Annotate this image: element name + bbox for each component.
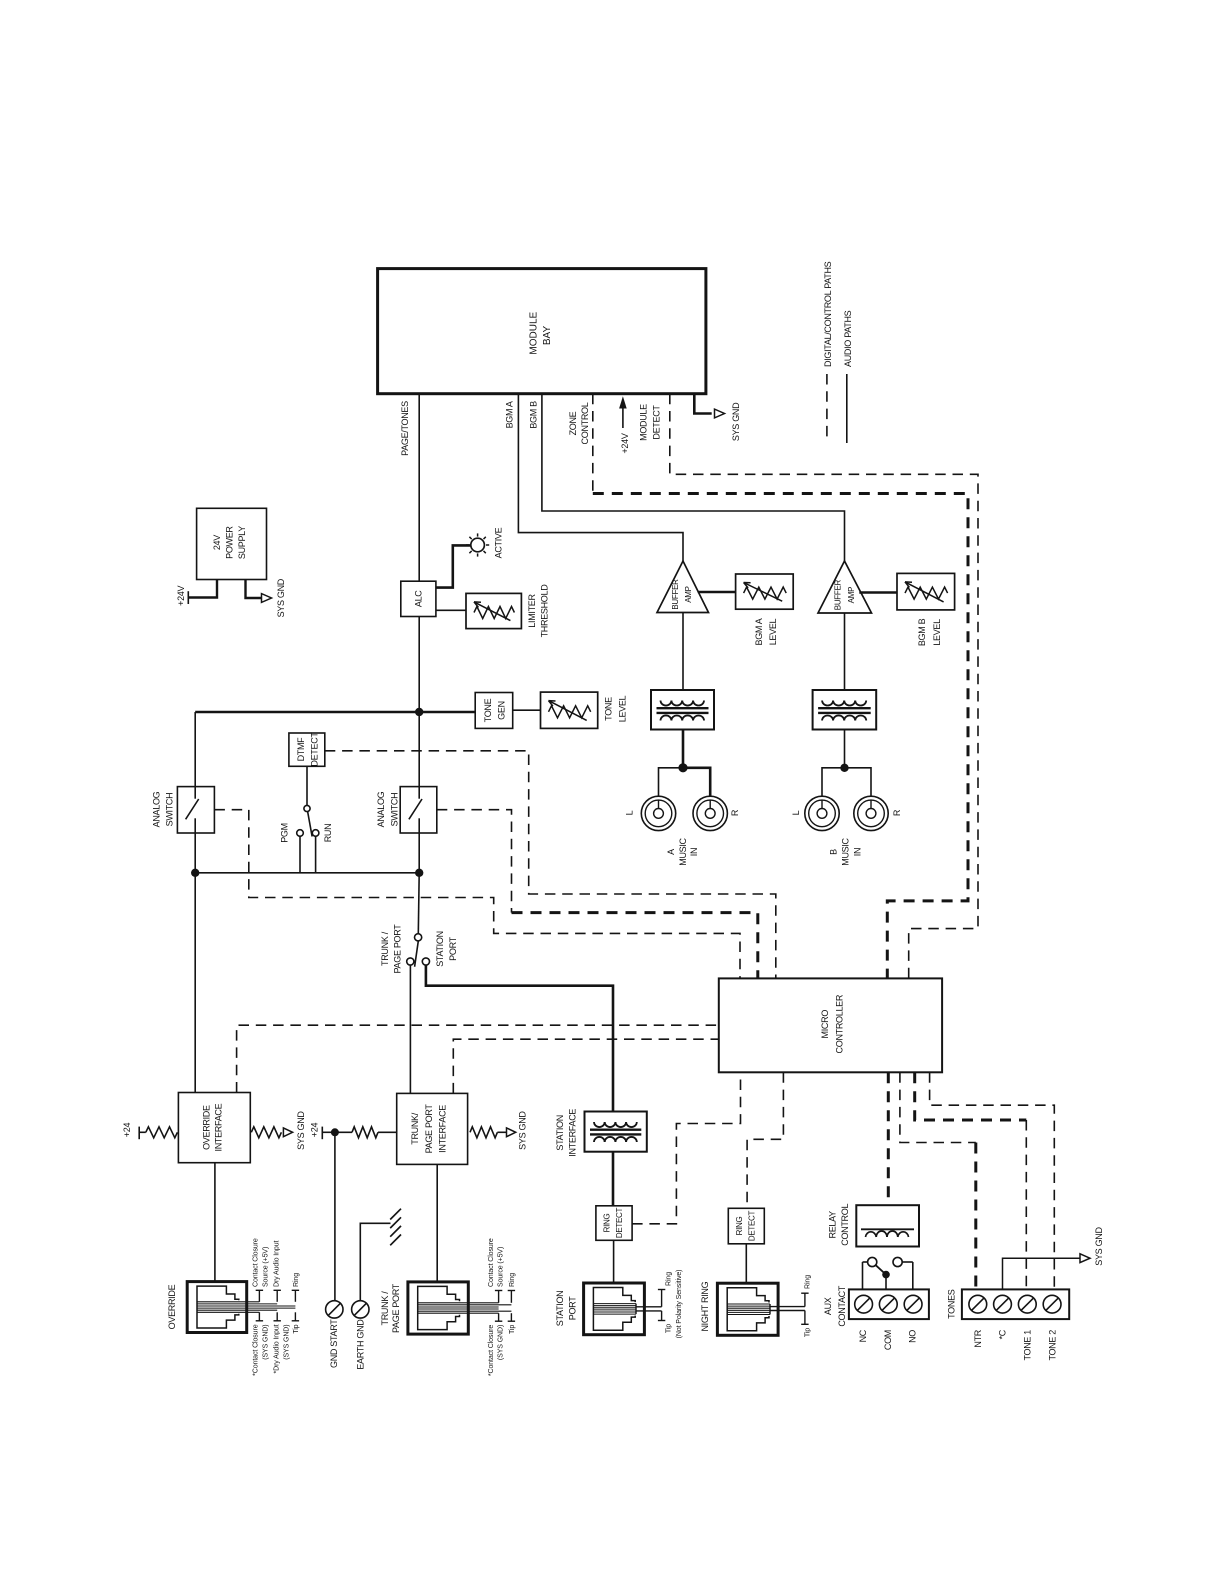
wire BGM B (542, 394, 845, 562)
label SYS GND module bay (731, 402, 741, 441)
svg-text:Tip: Tip (509, 1325, 516, 1334)
label ANALOG SWITCH left (152, 791, 175, 827)
svg-text:INTERFACE: INTERFACE (567, 1109, 577, 1157)
ring detect station box (596, 1206, 632, 1241)
wire analog switch right dashed to micro (437, 810, 758, 979)
svg-text:COM: COM (883, 1330, 893, 1350)
svg-text:TONE: TONE (604, 697, 614, 721)
jack STATION PORT (584, 1283, 666, 1335)
switch trunk/station port select (407, 934, 430, 967)
wire station interface to ring detect (612, 1152, 615, 1206)
svg-text:OVERRIDE: OVERRIDE (167, 1284, 177, 1329)
svg-text:MODULE: MODULE (639, 404, 649, 441)
wire tone bus (195, 711, 475, 714)
label NIGHT RING jack (700, 1281, 710, 1331)
svg-text:24V: 24V (212, 535, 222, 550)
wire NTR dashed from micro (900, 1072, 976, 1289)
node +24 gnd start junction (331, 1128, 339, 1136)
node run bus left (191, 869, 199, 877)
svg-text:Source (+5V): Source (+5V) (262, 1247, 269, 1287)
svg-text:L: L (791, 810, 801, 815)
svg-text:+24V: +24V (620, 433, 630, 453)
svg-text:IN: IN (852, 848, 862, 856)
svg-text:ACTIVE: ACTIVE (494, 527, 504, 558)
svg-text:DETECT: DETECT (309, 732, 319, 767)
labels night ring jack pins (805, 1275, 812, 1337)
svg-text:A: A (666, 849, 676, 855)
label ZONE CONTROL (568, 402, 590, 444)
svg-text:BUFFER: BUFFER (834, 579, 843, 610)
svg-text:POWER: POWER (225, 526, 235, 559)
wire ALC to ACTIVE LED (436, 545, 471, 587)
labels station jack pins (666, 1270, 683, 1339)
legend label DIGITAL/CONTROL PATHS (823, 261, 833, 367)
svg-text:BAY: BAY (542, 326, 553, 346)
BGM A level rheostat (736, 574, 794, 609)
wire left branch down to analog switch (194, 712, 196, 787)
svg-text:Tip: Tip (805, 1328, 812, 1337)
wire night ring detect dashed from micro (747, 1072, 783, 1208)
wire ALC to limiter threshold (436, 609, 466, 611)
wire buffer A to BGM A level (698, 591, 736, 594)
BGM B level rheostat (897, 573, 955, 610)
label A MUSIC IN (666, 837, 699, 865)
aux contact terminal strip (849, 1289, 929, 1319)
svg-text:L: L (625, 810, 635, 815)
svg-text:TRUNK /: TRUNK / (380, 931, 390, 966)
label R music B (892, 809, 902, 816)
label TONE LEVEL (604, 695, 628, 722)
svg-text:PAGE/TONES: PAGE/TONES (400, 401, 410, 456)
svg-text:AMP: AMP (847, 587, 856, 603)
label R music A (730, 809, 740, 816)
wire run bus (195, 872, 419, 874)
labels trunk jack pins top (488, 1238, 516, 1287)
legend digital/control paths dashed sample (826, 374, 828, 443)
labels override jack pins bottom (253, 1324, 301, 1376)
label 24V POWER SUPPLY (212, 526, 247, 560)
svg-text:Tip: Tip (293, 1324, 300, 1333)
wire analog switch left to override interface (194, 833, 196, 1093)
label NC (858, 1329, 868, 1342)
wire tone gen to tone level (513, 709, 541, 711)
wire analog switch left dashed to micro (214, 810, 740, 979)
label BGM A (505, 401, 515, 428)
wire ALC down to tone junction (418, 617, 420, 713)
label TRUNK / PAGE PORT jack (380, 1283, 401, 1333)
wire transformer A to jacks (659, 730, 711, 797)
wire relay control dashed from micro (887, 1072, 890, 1205)
ALC box (401, 581, 436, 616)
svg-text:Ring: Ring (509, 1273, 516, 1287)
svg-text:PORT: PORT (567, 1296, 577, 1320)
switch PGM/RUN (297, 805, 319, 872)
label ANALOG SWITCH right (376, 791, 399, 827)
svg-text:NIGHT RING: NIGHT RING (700, 1281, 710, 1331)
svg-text:RUN: RUN (323, 824, 333, 843)
label TONE 2 (1047, 1330, 1057, 1361)
svg-text:GEN: GEN (497, 701, 507, 720)
label MODULE BAY (529, 311, 553, 354)
svg-text:DIGITAL/CONTROL PATHS: DIGITAL/CONTROL PATHS (823, 261, 833, 367)
svg-text:BGM B: BGM B (917, 618, 927, 646)
label NO (908, 1330, 918, 1343)
label L music A (625, 810, 635, 815)
wire SYS GND lead of power supply (246, 580, 272, 603)
jack B music L (805, 796, 839, 830)
svg-text:INTERFACE: INTERFACE (214, 1103, 224, 1151)
wire DTMF to PGM/RUN switch (306, 766, 308, 805)
svg-text:NTR: NTR (973, 1329, 983, 1347)
svg-text:SUPPLY: SUPPLY (237, 526, 247, 559)
analog switch right (400, 787, 437, 833)
legend audio paths solid sample (846, 374, 848, 443)
svg-text:LEVEL: LEVEL (618, 695, 628, 722)
svg-text:MUSIC: MUSIC (678, 837, 688, 865)
svg-text:Contact Closure: Contact Closure (253, 1238, 260, 1287)
node A music junction (678, 763, 687, 772)
label RING DETECT station (603, 1207, 624, 1238)
labels override jack pins top (253, 1238, 301, 1287)
wire TONE 1 dashed from micro (915, 1072, 1027, 1289)
svg-text:*Contact Closure: *Contact Closure (253, 1324, 260, 1376)
wire buffer A to transformer A (682, 613, 684, 691)
svg-text:LEVEL: LEVEL (932, 619, 942, 646)
svg-text:SYS GND: SYS GND (1094, 1227, 1104, 1266)
wire buffer B to BGM B level (859, 591, 897, 594)
wire SYS GND from *C (1003, 1254, 1091, 1290)
wire ring detect station dashed to micro (632, 1072, 740, 1224)
terminal EARTH GND (352, 1301, 369, 1318)
wire gnd start (334, 1132, 336, 1301)
label SYS GND power supply (276, 578, 286, 617)
aux contact switch (863, 1257, 913, 1289)
24V power supply (197, 508, 267, 579)
wire trunk contact to trunk interface (409, 965, 411, 1093)
svg-text:PAGE PORT: PAGE PORT (391, 1283, 401, 1333)
jack NIGHT RING (717, 1283, 808, 1335)
label DTMF DETECT (296, 732, 319, 767)
wire MODULE DETECT dashed (670, 394, 978, 979)
label STATION PORT jack (555, 1291, 577, 1327)
label TRUNK/ PAGE PORT switch (380, 924, 403, 974)
transformer B (813, 690, 877, 730)
label BGM B (529, 401, 539, 429)
svg-text:PORT: PORT (448, 936, 458, 960)
svg-text:SYS GND: SYS GND (518, 1111, 528, 1150)
label +24V power supply (176, 585, 186, 605)
wire SYS GND from module bay (694, 394, 724, 418)
svg-text:INTERFACE: INTERFACE (438, 1105, 448, 1153)
svg-text:CONTROL: CONTROL (580, 402, 590, 444)
svg-text:LEVEL: LEVEL (768, 618, 778, 645)
label STATION PORT switch (435, 931, 458, 967)
svg-text:PAGE PORT: PAGE PORT (424, 1104, 434, 1154)
svg-text:NC: NC (858, 1329, 868, 1342)
svg-text:PGM: PGM (279, 823, 289, 843)
trunk/page port interface box (397, 1093, 468, 1164)
buffer amp A (657, 561, 709, 613)
svg-text:BGM B: BGM B (529, 401, 539, 429)
label PGM (279, 823, 289, 843)
label SYS GND tones (1094, 1227, 1104, 1266)
label +24 override (122, 1123, 132, 1138)
svg-text:SWITCH: SWITCH (389, 793, 399, 827)
svg-text:PAGE PORT: PAGE PORT (393, 924, 403, 974)
label ACTIVE (494, 527, 504, 558)
svg-text:STATION: STATION (435, 931, 445, 967)
svg-text:Dry Audio Input: Dry Audio Input (274, 1240, 281, 1287)
label BGM A LEVEL (754, 618, 778, 645)
label L music B (791, 810, 801, 815)
svg-text:SWITCH: SWITCH (165, 793, 175, 827)
node B music junction (840, 764, 848, 772)
jack A music R (693, 796, 727, 830)
svg-text:SYS GND: SYS GND (276, 578, 286, 617)
svg-text:IN: IN (689, 848, 699, 856)
svg-text:(SYS GND): (SYS GND) (283, 1325, 290, 1360)
jack A music L (641, 796, 675, 830)
svg-text:BUFFER: BUFFER (671, 579, 680, 610)
tones terminal strip (962, 1289, 1069, 1319)
wire +24V lead of power supply (188, 580, 217, 605)
svg-text:LIMITER: LIMITER (527, 593, 537, 627)
buffer amp B (818, 561, 872, 613)
earth ground symbol (390, 1209, 401, 1246)
svg-text:DETECT: DETECT (651, 405, 661, 440)
svg-text:TONE 1: TONE 1 (1023, 1330, 1033, 1361)
label COM (883, 1330, 893, 1350)
svg-text:OVERRIDE: OVERRIDE (201, 1105, 211, 1150)
label RING DETECT night (735, 1210, 757, 1241)
wire station audio path (426, 965, 613, 1111)
svg-text:RING: RING (735, 1217, 744, 1236)
svg-text:RELAY: RELAY (828, 1211, 838, 1239)
label GND START (329, 1319, 339, 1368)
svg-text:Ring: Ring (293, 1273, 300, 1287)
svg-text:TONES: TONES (947, 1289, 957, 1319)
svg-text:(SYS GND): (SYS GND) (498, 1325, 505, 1360)
micro controller (719, 978, 942, 1072)
svg-text:R: R (892, 809, 902, 816)
svg-text:+24: +24 (310, 1123, 320, 1138)
svg-text:*Dry Audio Input: *Dry Audio Input (274, 1324, 281, 1373)
svg-text:RING: RING (603, 1214, 612, 1233)
ring detect night box (728, 1208, 764, 1244)
svg-text:Tip: Tip (666, 1324, 673, 1333)
labels trunk jack pins bottom (488, 1325, 516, 1377)
svg-text:*Contact Closure: *Contact Closure (488, 1325, 495, 1377)
svg-text:ZONE: ZONE (568, 411, 578, 435)
limiter threshold rheostat (466, 593, 521, 628)
legend label AUDIO PATHS (843, 310, 853, 367)
svg-text:TRUNK/: TRUNK/ (410, 1112, 420, 1144)
label MICRO CONTROLLER (820, 994, 845, 1053)
wire override interface to jack (214, 1163, 216, 1282)
svg-text:CONTROL: CONTROL (840, 1204, 850, 1246)
jack B music R (854, 796, 888, 830)
svg-text:TONE 2: TONE 2 (1047, 1330, 1057, 1361)
transformer A (651, 690, 714, 730)
wire BGM A (518, 394, 683, 562)
label MODULE DETECT (639, 404, 662, 441)
svg-text:CONTACT: CONTACT (837, 1285, 847, 1327)
svg-text:MICRO: MICRO (820, 1010, 830, 1039)
wire PAGE/TONES trunk line (418, 394, 420, 582)
LED ACTIVE (466, 533, 489, 556)
label BUFFER AMP A (671, 579, 693, 610)
svg-text:BGM A: BGM A (754, 618, 764, 645)
wire +24V arrow into module bay (619, 396, 627, 428)
label LIMITER THRESHOLD (527, 584, 550, 638)
module bay (378, 269, 706, 394)
svg-text:(Not Polarity Sensitive): (Not Polarity Sensitive) (676, 1270, 683, 1339)
label RELAY CONTROL (828, 1204, 850, 1246)
wire TONE 2 dashed from micro (930, 1072, 1055, 1289)
svg-text:ANALOG: ANALOG (152, 791, 162, 827)
svg-text:AMP: AMP (684, 586, 693, 602)
wire main line through analog switch right (418, 712, 420, 873)
label RUN (323, 824, 333, 843)
svg-text:STATION: STATION (555, 1115, 565, 1151)
svg-text:+24V: +24V (176, 585, 186, 605)
label SYS GND override (296, 1111, 306, 1150)
svg-text:MUSIC: MUSIC (841, 837, 851, 865)
svg-text:+24: +24 (122, 1123, 132, 1138)
jack TRUNK/PAGE PORT (408, 1282, 515, 1334)
resistor +24 trunk (322, 1127, 396, 1140)
svg-text:ANALOG: ANALOG (376, 791, 386, 827)
svg-text:*C: *C (998, 1329, 1008, 1339)
svg-text:AUDIO PATHS: AUDIO PATHS (843, 310, 853, 367)
node tone junction (415, 708, 423, 716)
svg-text:SYS GND: SYS GND (296, 1111, 306, 1150)
label PAGE/TONES (400, 401, 410, 456)
svg-text:Contact Closure: Contact Closure (488, 1238, 495, 1287)
wire DTMF detect dashed to micro (325, 751, 776, 979)
svg-text:ALC: ALC (414, 590, 424, 607)
label AUX CONTACT (823, 1285, 847, 1327)
label NTR (973, 1329, 983, 1347)
tone gen box (475, 693, 513, 729)
label BGM B LEVEL (917, 618, 942, 646)
relay control coil (856, 1205, 919, 1246)
label ALC (414, 590, 424, 607)
svg-text:SYS GND: SYS GND (731, 402, 741, 441)
analog switch left (177, 787, 214, 833)
label +24 trunk (310, 1123, 320, 1138)
terminal GND START (326, 1301, 343, 1318)
svg-text:Source (+5V): Source (+5V) (498, 1247, 505, 1287)
wire override interface dashed to micro (237, 1025, 719, 1092)
svg-text:TONE: TONE (483, 698, 493, 722)
station interface transformer (585, 1112, 647, 1152)
svg-text:TRUNK /: TRUNK / (380, 1291, 390, 1326)
svg-text:NO: NO (908, 1330, 918, 1343)
jack OVERRIDE (187, 1282, 299, 1333)
label TONE GEN (483, 698, 506, 722)
label B MUSIC IN (829, 837, 863, 865)
svg-text:GND START: GND START (329, 1319, 339, 1368)
label +24V (620, 433, 630, 453)
wire buffer B to transformer B (844, 613, 846, 690)
label SYS GND trunk (518, 1111, 528, 1150)
wire transformer B to jacks (822, 730, 871, 797)
resistor +24 override (139, 1127, 177, 1140)
label BUFFER AMP B (834, 579, 856, 610)
resistor sys gnd trunk (470, 1127, 516, 1138)
wire ring detect to station port jack (613, 1240, 615, 1283)
wire trunk interface dashed to micro (453, 1039, 719, 1093)
svg-text:MODULE: MODULE (529, 311, 540, 354)
svg-text:DTMF: DTMF (296, 737, 306, 762)
label OVERRIDE INTERFACE (201, 1103, 223, 1151)
svg-text:STATION: STATION (555, 1291, 565, 1327)
svg-text:AUX: AUX (823, 1297, 833, 1315)
label *C (998, 1329, 1008, 1339)
wire trunk interface to jack (436, 1164, 438, 1282)
svg-text:Ring: Ring (805, 1275, 812, 1289)
resistor sys gnd override (251, 1127, 292, 1138)
svg-text:(SYS GND): (SYS GND) (262, 1325, 269, 1360)
label OVERRIDE jack (167, 1284, 177, 1329)
wire ZONE CONTROL dashed (593, 394, 968, 979)
wire earth gnd (360, 1223, 390, 1301)
label TRUNK/ PAGE PORT INTERFACE (410, 1104, 448, 1154)
svg-text:B: B (829, 849, 839, 855)
svg-text:DETECT: DETECT (748, 1210, 757, 1241)
svg-text:THRESHOLD: THRESHOLD (540, 584, 550, 638)
node run bus right (415, 869, 423, 877)
tone level rheostat (541, 692, 598, 728)
label TONE 1 (1023, 1330, 1033, 1361)
label TONES (947, 1289, 957, 1319)
svg-text:CONTROLLER: CONTROLLER (835, 994, 845, 1053)
wire run bus to port switch (417, 873, 420, 934)
label EARTH GND (356, 1319, 366, 1370)
wire ring detect night to jack (745, 1244, 747, 1283)
DTMF detect box (289, 733, 325, 766)
svg-text:Ring: Ring (666, 1272, 673, 1286)
svg-text:BGM A: BGM A (505, 401, 515, 428)
svg-text:R: R (730, 809, 740, 816)
label STATION INTERFACE (555, 1109, 577, 1157)
svg-text:DETECT: DETECT (615, 1207, 624, 1238)
override interface box (178, 1093, 250, 1163)
svg-text:EARTH GND: EARTH GND (356, 1319, 366, 1370)
